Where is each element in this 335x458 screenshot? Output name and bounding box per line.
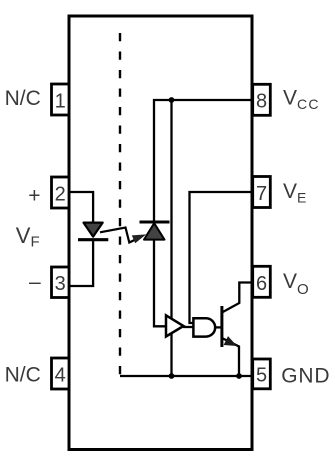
light arrow head (132, 234, 146, 243)
svg-text:VO: VO (283, 270, 309, 298)
IC package body (69, 16, 252, 450)
pin 5 (253, 359, 271, 389)
pin 1 (52, 84, 70, 115)
node GND junction dot (amplifier) (169, 373, 175, 379)
wire Vcc rail from photodiode cathode to pin 8 (154, 100, 252, 222)
wire pin 2 to LED anode (69, 192, 93, 223)
pin 6 (253, 266, 271, 297)
wire Vcc branch to amplifier top (170, 100, 172, 319)
wire AND gate output to transistor base (215, 326, 221, 328)
svg-text:VE: VE (283, 180, 306, 205)
transistor Q1 emitter wire to GND rail (222, 338, 239, 376)
node Vcc junction dot (169, 97, 175, 103)
LED D1 cathode bar (78, 238, 108, 241)
wire amplifier bottom to GND rail (170, 333, 172, 377)
wire amplifier output to AND gate (183, 326, 194, 328)
photodiode D2 cathode bar (140, 221, 170, 224)
svg-text:4: 4 (55, 365, 66, 387)
isolation barrier (dashed line) (119, 33, 121, 376)
light arrow zigzag (100, 228, 138, 243)
pin 8 (253, 84, 271, 115)
svg-text:–: – (29, 270, 41, 293)
LED D1 triangle (84, 223, 103, 237)
svg-text:8: 8 (256, 91, 267, 113)
svg-text:2: 2 (55, 183, 66, 205)
transistor Q1 collector wire to pin 6 (222, 283, 253, 313)
op-amp U1 amplifier triangle (166, 315, 184, 336)
pin 7 (253, 177, 271, 208)
transistor Q1 emitter arrowhead (224, 336, 237, 346)
wire photodiode anode to amplifier input (154, 240, 166, 327)
transistor Q1 base bar (220, 306, 223, 347)
svg-text:N/C: N/C (5, 364, 41, 387)
node GND junction dot (emitter) (236, 373, 242, 379)
AND gate U2 (193, 318, 215, 336)
svg-text:VF: VF (16, 223, 40, 251)
pin 4 (52, 358, 70, 389)
GND rail wire (120, 375, 252, 377)
photodiode D2 triangle (144, 223, 165, 239)
pin 3 (52, 267, 70, 298)
svg-text:3: 3 (55, 273, 66, 295)
pin 2 (52, 177, 70, 208)
svg-text:N/C: N/C (5, 87, 41, 110)
svg-text:+: + (28, 184, 40, 207)
svg-text:1: 1 (55, 91, 66, 113)
svg-text:5: 5 (256, 364, 267, 386)
svg-text:6: 6 (256, 273, 267, 295)
svg-text:7: 7 (256, 183, 267, 205)
wire LED cathode to pin 3 (69, 239, 93, 286)
wire enable from pin 7 to AND gate (190, 192, 253, 323)
svg-text:GND: GND (281, 364, 330, 387)
svg-text:VCC: VCC (283, 86, 320, 112)
